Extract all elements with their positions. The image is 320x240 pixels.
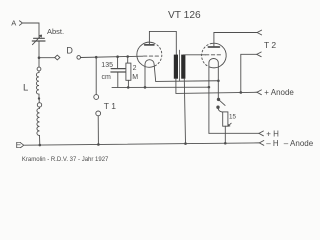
inductor L upper section (36, 71, 39, 97)
wire earth / -H bus (24, 143, 259, 145)
switch S arm (219, 100, 225, 106)
wire +H bus (209, 132, 259, 134)
terminal +Anode (257, 88, 295, 97)
wire coil to earth line (39, 135, 41, 145)
tube V1 anode (145, 44, 154, 46)
wire rheostat to -H bus (224, 126, 226, 143)
svg-text:cm: cm (102, 74, 112, 81)
node T1/earth junction (97, 143, 100, 146)
transformer T secondary winding (181, 55, 185, 79)
svg-text:D: D (66, 46, 73, 56)
node rheostat/-H junction (224, 142, 227, 145)
inductor L lower section (37, 107, 40, 135)
node +Anode / T2 return (240, 91, 243, 94)
capacitor 135cm (101, 57, 125, 88)
wire V2 anode to T2 terminal (214, 33, 257, 47)
tube V1 filament (145, 60, 156, 88)
svg-text:+ Anode: + Anode (264, 88, 294, 97)
wire A to tuning capacitor (23, 23, 39, 38)
terminal D (66, 46, 80, 60)
svg-text:15: 15 (229, 113, 237, 120)
svg-text:– H: – H (266, 139, 279, 148)
tube V2 filament (209, 58, 218, 133)
wire filament bus upper (156, 80, 219, 83)
wire T1 lower to earth line (97, 116, 99, 145)
terminal T2 upper (257, 30, 262, 35)
node V2 filament left / grid return end (208, 86, 211, 89)
node coil tap 2 (37, 103, 41, 107)
node junction cap/coil (38, 56, 41, 59)
wire grid return bus (112, 86, 209, 88)
node grid capacitor top (116, 55, 119, 58)
terminal coil tap (diamond) (55, 55, 60, 60)
terminal +H (259, 129, 279, 138)
resistor 2M grid leak (126, 57, 138, 88)
node coil tap 1 (37, 67, 41, 71)
transformer T primary winding (174, 55, 178, 79)
svg-text:L: L (23, 83, 28, 94)
wire junction to tap terminal (39, 57, 55, 59)
wire switch to rheostat (218, 108, 225, 113)
svg-text:T 2: T 2 (264, 40, 276, 50)
svg-text:M: M (132, 74, 138, 81)
terminal T1 upper (94, 95, 99, 100)
switch S contact lower (216, 106, 219, 109)
terminal T1 lower (96, 111, 101, 116)
svg-text:T 1: T 1 (104, 101, 116, 111)
tube V2 envelope (202, 43, 227, 68)
svg-text:135: 135 (101, 62, 113, 69)
svg-text:– Anode: – Anode (284, 139, 314, 148)
wire secondary bottom to earth bus (184, 79, 185, 144)
wire V1 anode to transformer primary (149, 31, 176, 54)
node secondary/earth junction (184, 142, 187, 145)
svg-text:Kramolin - R.D.V. 37 - Jahr 19: Kramolin - R.D.V. 37 - Jahr 1927 (22, 157, 109, 163)
node grid resistor top (126, 55, 129, 58)
switch S contact upper (217, 98, 220, 101)
svg-text:VT 126: VT 126 (168, 10, 201, 21)
tube V1 envelope (137, 42, 162, 67)
terminal E (16, 140, 24, 150)
svg-text:+ H: + H (266, 129, 279, 138)
variable capacitor Abst. (32, 27, 64, 45)
transformer T core (179, 50, 181, 80)
node V1 filament left / grid return (144, 86, 147, 89)
wire primary bottom to +Anode bus (176, 79, 257, 94)
terminal T2 lower (257, 52, 262, 57)
wire grid bus (81, 56, 143, 57)
svg-text:2: 2 (133, 65, 137, 72)
tube V1 grid (144, 55, 159, 57)
svg-text:A: A (11, 18, 16, 27)
tube V2 anode (208, 46, 219, 48)
node filament bus / V2 filament right (217, 79, 220, 82)
wire junction to coil (38, 58, 40, 67)
tube V2 grid (206, 54, 223, 56)
svg-text:Abst.: Abst. (47, 27, 64, 36)
rheostat 15 (223, 112, 237, 126)
node T1 tap (95, 56, 98, 59)
wire to T1 (95, 57, 97, 94)
node coil/earth junction (39, 144, 42, 147)
terminal -H (259, 139, 313, 148)
terminal A (11, 18, 22, 27)
wire cap to junction (38, 41, 40, 57)
svg-text:E: E (16, 140, 22, 150)
node resistor bottom (127, 86, 130, 89)
wire T2 lower return (241, 54, 257, 92)
wire secondary top to V2 grid (183, 54, 205, 56)
